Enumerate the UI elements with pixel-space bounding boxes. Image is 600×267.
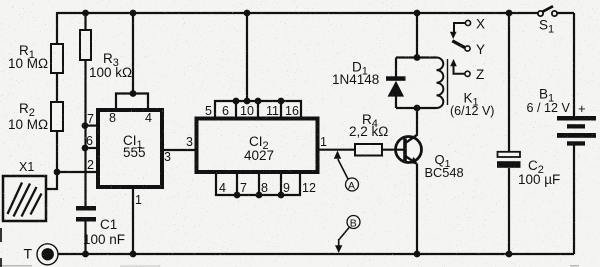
junction CI2 bracket pin11 [278, 98, 285, 105]
wire CI2 bottom bracket divider pin8 [258, 174, 260, 195]
wire CI2 pin1 to R4 [318, 149, 355, 151]
wire R4 to Q1 base [382, 149, 404, 151]
junction pin6 / R3 [82, 145, 89, 152]
wire CI1 pin3 to CI2 pin3 [162, 149, 196, 151]
wire CI2 top bracket divider pin6 [235, 101, 237, 117]
junction relay top / D1 [414, 54, 421, 61]
touch plate X1 [3, 176, 46, 221]
paper speckle noise [0, 0, 1, 1]
wire rail to R3 [84, 13, 86, 30]
wire CI2 top bracket divider pin11 [280, 101, 282, 117]
wire B1 to ground rail [573, 145, 575, 254]
IC CI1 555 [98, 110, 162, 187]
junction CI1 bracket / rail drop [130, 90, 137, 97]
transistor Q1 [396, 135, 422, 165]
wire relay bottom bar [396, 107, 437, 109]
resistor R4 [355, 144, 382, 156]
junction ground rail / C1 [82, 251, 89, 258]
switch S1 [538, 6, 557, 16]
wire D1 anode lead [395, 96, 397, 108]
wire rail drop to CI1 top bracket [132, 13, 134, 94]
resistor R3 [80, 30, 91, 60]
battery B1 [557, 116, 596, 146]
wire CI1 pin1 to ground [132, 189, 134, 254]
wire top supply rail [57, 12, 574, 14]
junction CI2 bottom bracket pin8 [256, 192, 263, 199]
wire X1 lead [46, 171, 57, 189]
node B arrow [335, 216, 360, 254]
relay armature line [447, 59, 449, 105]
wire D1 cathode lead [395, 58, 397, 78]
junction top rail / R3 [82, 10, 89, 17]
resistor R1 [51, 44, 63, 73]
wire C2 to ground [508, 168, 510, 254]
wire CI2 bottom bracket [216, 174, 300, 195]
scan edge artifacts [0, 228, 579, 267]
junction CI2 bottom bracket pin9 [278, 192, 285, 199]
terminal T [37, 244, 58, 265]
junction ground rail / CI1 pin1 [130, 251, 137, 258]
junction CI2 bracket rail drop [244, 98, 251, 105]
junction CI2 bracket pin10 [255, 98, 262, 105]
wire CI1 pin8-pin4 bracket [116, 94, 148, 109]
wire C1 to ground rail [84, 221, 86, 254]
diode D1 [386, 76, 406, 96]
relay coil K1 [437, 58, 444, 109]
wire rail drop to C2 [508, 13, 510, 152]
wire rail drop to CI2 top bracket [246, 13, 248, 101]
relay contact blade to Y [452, 41, 470, 51]
junction pin7 / R3 [82, 122, 89, 129]
junction X1 / R2 / pin2 [54, 169, 61, 176]
wire CI2 bottom bracket divider pin9 [280, 174, 282, 195]
node A arrow [334, 151, 359, 192]
junction CI2 bottom bracket pin7 [234, 192, 241, 199]
wire bottom ground rail [56, 253, 574, 255]
junction relay bottom / D1 [414, 105, 421, 112]
resistor R2 [51, 102, 63, 131]
junction top rail / relay drop [414, 10, 421, 17]
wire pin2 lead [57, 171, 98, 173]
wire rail right edge to B1 [573, 13, 575, 117]
capacitor C2 [497, 152, 521, 168]
wire relay to Q1 collector [416, 108, 418, 136]
wire rail drop to relay [416, 13, 418, 58]
junction top rail / C2 drop [506, 10, 513, 17]
IC CI2 4027 [197, 119, 318, 173]
relay contact Z [450, 59, 470, 76]
junction top rail / CI2 bracket drop [244, 10, 251, 17]
wire left branch top (rail to R1) [56, 12, 58, 44]
junction top rail / CI1 bracket drop [130, 10, 137, 17]
relay contact X [450, 20, 471, 39]
wire R1 to R2 [56, 73, 58, 102]
wire CI1 pin6 lead [85, 147, 98, 149]
wire Q1 emitter to ground [416, 164, 418, 255]
wire CI2 top bracket divider pin10 [257, 101, 259, 117]
wire CI2 bottom bracket divider pin7 [236, 174, 238, 195]
wire CI1 pin7 lead [85, 124, 98, 126]
junction ground rail / Q1 emitter [414, 251, 421, 258]
junction CI2 bracket pin6 [233, 98, 240, 105]
wire relay top bar [396, 56, 437, 58]
junction ground rail / C2 [506, 251, 513, 258]
wire CI2 top bracket [215, 101, 301, 117]
capacitor C1 [76, 206, 96, 222]
wire R3 to pins 7/6 and C1 [84, 60, 86, 206]
wire R2 to node A1 [56, 131, 58, 172]
